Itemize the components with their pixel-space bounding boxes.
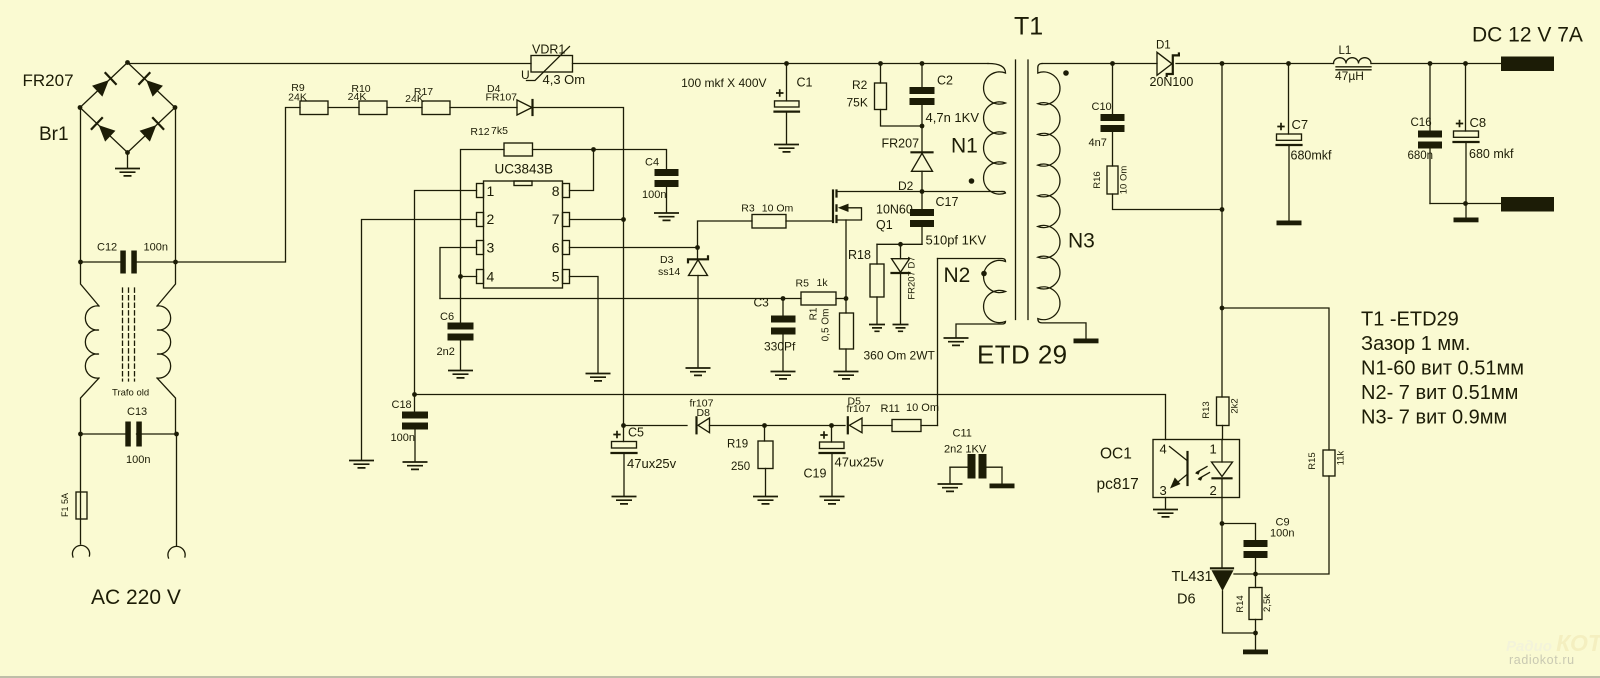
wire: VREF node to C4 [594,150,667,170]
ground: C5 [612,497,637,504]
svg-text:FR207: FR207 [882,137,920,151]
wire R9-R10 [328,107,359,109]
svg-text:3: 3 [1160,483,1167,498]
resistor R9 24K [300,101,328,115]
ground: pin5 [586,374,611,381]
AC terminal left [72,545,89,557]
plus sign C1 [776,89,784,96]
wire: COMP bus to OC1 pin4 [415,395,1166,440]
ground: C19 [820,497,845,504]
wire: pin7 to VCC rail [570,219,624,221]
wire: HV bus from VDR1 to transformer N1 top [573,63,989,65]
bridge diode top-right [139,73,163,97]
IC notch [514,181,532,186]
bridge diode top-left [92,73,116,97]
svg-text:100n: 100n [1270,528,1294,540]
node: rail at R16 [1220,207,1225,212]
svg-text:330Pf: 330Pf [764,340,796,354]
Q1 source routing [837,208,862,220]
resistor R5 1k [801,292,836,305]
transistor Q1 10N60 MOSFET: gate bar [832,191,834,223]
node: pin4/R12/C6 [458,274,463,279]
svg-text:24K: 24K [288,92,307,104]
AC terminal right [168,546,185,558]
node: C12 right [173,260,178,265]
svg-text:U: U [521,68,530,82]
svg-text:C5: C5 [628,426,644,440]
svg-text:510pf 1KV: 510pf 1KV [926,233,987,248]
wire: left leg to fuse and AC terminal [80,434,82,544]
svg-text:8: 8 [552,183,560,199]
svg-text:C10: C10 [1092,101,1112,113]
wire: R15 bottom to REF line [1234,476,1329,574]
node: C7 top [1286,61,1291,66]
node: R5/R1/source [844,296,849,301]
wire: drain line to N1 bottom [837,191,1005,193]
svg-text:R15: R15 [1307,452,1318,469]
svg-text:100n: 100n [642,189,666,201]
node: C10 top [1110,61,1115,66]
svg-text:F1 5A: F1 5A [60,493,70,517]
output terminal - [1501,197,1554,212]
ground: C7 (secondary bar) [1277,221,1302,226]
pin box 6 [563,241,570,255]
ground: R19 [753,497,778,504]
node: pin2/TL431/C9 [1220,521,1225,526]
wire: D4 cathode to VCC rail corner [533,108,624,442]
capacitor C4 100n [655,169,679,176]
capacitor C17 510pf 1KV [921,192,923,210]
resistor R13 2k2 [1217,397,1230,426]
svg-text:AC 220 V: AC 220 V [91,586,181,609]
svg-text:2,5k: 2,5k [1262,594,1273,612]
svg-text:4: 4 [1160,442,1167,457]
ground: C8 (secondary bar) [1454,218,1479,223]
node: pin7/VCC [621,217,626,222]
wire: bridge minus to ground [127,153,129,169]
svg-text:1: 1 [487,183,495,199]
svg-text:R5: R5 [796,278,810,290]
wire: D1 to +12V rail [1176,63,1222,65]
node: C12 left [78,260,83,265]
ground: C6 [448,371,473,378]
svg-text:Br1: Br1 [39,124,69,145]
node: C19/D5 [829,423,834,428]
ground: bridge [115,169,140,176]
svg-text:R11: R11 [881,403,900,415]
svg-text:pc817: pc817 [1097,476,1139,493]
ground: C18 [403,462,428,469]
svg-text:D2: D2 [898,179,914,193]
svg-text:C1: C1 [797,76,813,90]
svg-text:R13: R13 [1201,401,1212,418]
output terminal + (DC 12V) [1501,57,1554,72]
svg-text:2: 2 [487,211,495,227]
fuse F1 5A [76,492,87,519]
ground: R14 (secondary bar) [1243,650,1268,655]
wire: left AC rail bridge to C12 [80,108,82,263]
ground: C4 [654,213,679,220]
capacitor C6 2n2 [448,323,474,330]
diode D1 20N100 [1157,52,1172,75]
node: C16 top [1428,61,1433,66]
resistor R10 24K [359,101,387,115]
svg-text:R1: R1 [809,307,820,320]
capacitor C1 electrolytic [786,64,788,101]
node: C1 top [784,61,789,66]
svg-text:3: 3 [487,240,495,256]
wire: branch to R15 [1222,308,1329,450]
svg-text:N3: N3 [1068,230,1095,253]
svg-text:4n7: 4n7 [1089,137,1107,149]
svg-text:6: 6 [552,240,560,256]
svg-text:C2: C2 [937,74,953,88]
wire: OC1 pin2 down [1221,498,1223,524]
svg-text:C8: C8 [1470,115,1487,130]
wire: +12V rail to output [1222,63,1501,65]
OC1 LED [1221,440,1223,463]
svg-text:R3: R3 [741,203,755,215]
ground: C1 [774,145,799,152]
OC1 phototransistor emitter with arrow [1173,475,1188,487]
svg-text:2: 2 [1210,483,1217,498]
wire: pin5 to ground [570,277,599,374]
svg-text:Зазор 1 мм.: Зазор 1 мм. [1361,333,1470,355]
wire: pin4 to RC node [461,276,477,278]
svg-text:R14: R14 [1235,595,1246,612]
svg-text:R16: R16 [1092,171,1103,188]
svg-text:C13: C13 [127,406,147,418]
svg-text:0,5 Om: 0,5 Om [821,309,832,342]
svg-text:100 mkf X 400V: 100 mkf X 400V [681,76,766,90]
node: feedback branch [1220,306,1225,311]
capacitor C19 47ux25v electrolytic [831,426,833,443]
svg-text:N1: N1 [951,135,978,158]
svg-text:C19: C19 [804,467,827,481]
svg-text:C4: C4 [645,157,659,169]
svg-text:250: 250 [731,461,750,473]
svg-text:24K: 24K [405,93,424,105]
svg-text:ss14: ss14 [658,266,680,278]
wire: node up to R3 [698,221,753,248]
svg-text:5: 5 [552,269,560,285]
wire: OC1 pin3 to ground [1165,498,1167,510]
OC1 phototransistor base bar [1186,452,1188,485]
wire: snubber node row [877,243,922,245]
svg-text:4: 4 [487,269,495,285]
wire: VCC aux row [624,425,938,427]
svg-text:680n: 680n [1408,150,1434,162]
transformer T1: secondary winding N3 [1038,64,1086,339]
svg-text:R19: R19 [727,439,748,451]
pin box 7 [563,213,570,227]
ground: R1 [834,372,859,379]
svg-text:D8: D8 [697,407,711,419]
inductor L1 47uH [1334,58,1372,64]
node: C18/COMP bus [412,392,417,397]
capacitor C9 100n [1244,540,1268,547]
svg-text:radiokot.ru: radiokot.ru [1509,653,1575,667]
shunt regulator D6 TL431 [1221,524,1223,569]
svg-text:C11: C11 [953,428,972,440]
pin box 5 [563,270,570,284]
svg-text:10 Om: 10 Om [1119,166,1130,195]
capacitor C16 680n [1429,64,1431,131]
pin box 4 [477,270,484,284]
svg-text:11k: 11k [1336,450,1347,465]
op-amp/PWM IC U1 UC3843B body [484,181,563,288]
ground: C11 left [938,484,963,491]
wire R10-R17 [387,107,422,109]
svg-text:N1-60 вит 0.51мм: N1-60 вит 0.51мм [1361,358,1524,380]
plus sign C8 [1456,120,1463,127]
svg-text:fr107: fr107 [847,403,871,415]
resistor R16 10 Om [1107,166,1118,194]
node: bridge corners junction dots [125,60,130,65]
svg-text:C3: C3 [754,296,770,310]
capacitor C2 4,7n 1KV [921,64,923,88]
node: drain/D2/C17 [920,189,925,194]
wire: pin1 to COMP bus [415,191,477,395]
choke core dashed lines [123,288,135,381]
svg-text:Q1: Q1 [876,218,893,232]
wire: lower output row [1430,203,1501,205]
pin box 2 [477,213,484,227]
svg-text:100n: 100n [144,242,168,254]
svg-text:L1: L1 [1339,45,1352,57]
wire: R12 right to VREF node [533,149,594,151]
svg-text:T1: T1 [1014,13,1043,41]
svg-text:47ux25v: 47ux25v [627,456,677,471]
svg-text:360 Om 2WT: 360 Om 2WT [864,349,936,363]
resistor R15 11k [1323,450,1335,476]
diode D8 fr107 [695,417,697,433]
capacitor C5 47ux25v electrolytic [612,442,637,449]
svg-text:C6: C6 [440,311,454,323]
ground: OC1 pin3 [1153,510,1178,517]
polarity dot N2 [981,271,987,277]
diode D4 FR107 [517,100,532,115]
capacitor C18 100n [414,395,416,412]
transformer T1: primary winding N1 [984,64,1006,195]
bridge rectifier Br1 FR207 : diamond outline [80,63,175,153]
common-mode choke Trafo old : left winding [81,262,100,434]
node: pin6/R3/D3 [695,245,700,250]
resistor R1 0.5 Om [845,299,847,314]
wire: pin8 to VREF node [570,150,594,191]
wire: right AC rail bridge to C12 [175,108,177,263]
node: R18/D7/C17 [898,242,903,247]
node: R2 top [878,61,883,66]
resistor R11 10 Om [892,420,921,432]
transformer T1: core lines [1016,60,1029,320]
node: C13 left [78,432,83,437]
varistor VDR1 [531,56,573,73]
capacitor C11 2n2 1KV (Y-cap) [950,466,1002,468]
wire: source down to R1 node [845,220,847,299]
OC1 phototransistor collector [1170,447,1188,461]
ground: N2 [944,338,969,345]
resistor R2 75K [880,64,882,84]
wire R17-D4 [450,107,517,109]
svg-text:2n2: 2n2 [437,346,455,358]
svg-text:24K: 24K [348,91,367,103]
wire: R2 bottom to C2 bottom [881,110,923,127]
capacitor C7 680mkf electrolytic [1288,64,1290,135]
node: D8/R19 [762,423,767,428]
node: REF/C9/R14 [1253,572,1258,577]
svg-text:7k5: 7k5 [491,125,508,137]
resistor R19 250 [764,426,766,442]
transformer T1: aux winding N2 [938,259,1006,338]
svg-text:4,3 Om: 4,3 Om [543,72,586,87]
polarity dot N3 [1063,70,1069,76]
ground: N3 return (secondary bar) [1074,339,1099,344]
svg-text:C12: C12 [97,242,117,254]
svg-text:FR107: FR107 [486,92,518,104]
resistor R17 24K [422,101,450,115]
svg-text:D3: D3 [660,254,674,266]
svg-text:75K: 75K [847,96,868,110]
svg-text:7: 7 [552,211,560,227]
svg-text:C18: C18 [392,399,412,411]
svg-text:N2: N2 [944,264,971,287]
bridge diode bottom-left [92,118,116,142]
ground: R18 [869,325,885,332]
wire: R16 bottom to rail [1113,194,1223,210]
resistor R18 360 Om 2WT [876,244,878,264]
svg-text:C17: C17 [936,195,959,209]
wire: node to C9 [1222,524,1256,541]
node: C3 [781,296,786,301]
svg-text:D1: D1 [1156,40,1171,52]
svg-text:VDR1: VDR1 [532,43,565,57]
ground: C3 [771,372,796,379]
svg-text:100n: 100n [391,432,415,444]
wire: pin2 to ground [362,220,477,460]
schottky diode D3 ss14 [697,248,699,260]
resistor R12 7k5 [504,143,533,156]
svg-text:47µH: 47µH [1335,69,1364,83]
ground: C11 right (secondary bar) [990,484,1015,489]
wire: pin3 to current-sense line [440,248,477,299]
node: C13 right [174,432,179,437]
svg-text:C7: C7 [1292,117,1309,132]
plus sign C7 [1277,123,1284,130]
wire: main HV bus from bridge + to VDR1 [128,63,532,65]
wire: right leg to AC terminal [176,434,178,546]
wire: pin6 to gate drive node [570,247,698,249]
wire: C12 row and feed to startup resistors [81,108,301,263]
common-mode choke Trafo old : right winding [157,262,176,434]
svg-text:OC1: OC1 [1100,446,1132,463]
node: D1 output [1220,61,1225,66]
svg-text:680mkf: 680mkf [1291,149,1333,163]
bottom edge strip [0,676,1600,678]
svg-text:DC 12 V 7A: DC 12 V 7A [1472,24,1583,47]
plus sign C19 [820,431,827,438]
svg-text:47ux25v: 47ux25v [835,455,885,470]
svg-text:FR207: FR207 [23,71,74,90]
wire: current-sense line pin3 to R5 [440,298,801,300]
svg-text:R2: R2 [852,78,868,92]
node: R2/C2 bottom [920,124,925,129]
wire: N2 top lead down to aux rectifier [937,259,939,426]
polarity dot N1 [969,178,975,184]
ground: D7 [893,325,909,332]
ground: D3 [686,368,711,375]
svg-text:10 Om: 10 Om [906,402,939,414]
diode D2 FR207 (snubber clamp) [921,126,923,152]
svg-text:D6: D6 [1177,592,1196,608]
capacitor C3 330Pf [782,299,784,316]
svg-text:2k2: 2k2 [1230,398,1241,413]
svg-text:R12: R12 [470,126,489,138]
pin box 3 [477,241,484,255]
node: C8 bottom [1463,201,1468,206]
wire: C13 row [81,433,177,435]
wire: R3 to gate [786,220,833,222]
opto-coupler OC1 pc817 body [1153,440,1240,498]
svg-text:10N60: 10N60 [876,203,913,217]
wire: N3 top to D1 [1042,63,1157,65]
node: VREF / pin8 / C4 [591,147,596,152]
OC1 light arrows [1197,467,1210,479]
svg-text:TL431: TL431 [1172,569,1213,585]
diode D5 fr107 [847,417,849,433]
bridge diode bottom-right [140,118,164,142]
svg-text:ETD 29: ETD 29 [977,340,1068,370]
svg-text:1k: 1k [817,277,829,289]
svg-text:4,7n 1KV: 4,7n 1KV [926,110,980,125]
Q1 channel dashes [835,191,837,223]
svg-text:680 mkf: 680 mkf [1469,147,1514,161]
svg-text:10 Om: 10 Om [762,203,794,215]
plus sign C5 [613,431,620,438]
svg-text:2n2 1KV: 2n2 1KV [944,444,987,456]
svg-text:C16: C16 [1411,117,1432,129]
pin box 8 [563,184,570,198]
resistor R3 10 Om [752,215,786,229]
svg-text:T1 -ETD29: T1 -ETD29 [1361,309,1459,331]
resistor R14 2,5k [1255,574,1257,588]
node: R14 bottom [1253,631,1258,636]
pin box 1 [477,184,484,198]
capacitor C8 680 mkf electrolytic [1465,64,1467,132]
node: C8 top [1463,61,1468,66]
svg-text:100n: 100n [126,454,150,466]
capacitor C10 4n7 (snubber) [1112,64,1114,115]
svg-text:R18: R18 [848,248,871,262]
svg-text:1: 1 [1210,442,1217,457]
svg-text:N3- 7 вит 0.9мм: N3- 7 вит 0.9мм [1361,407,1507,429]
wire: R12 left to pin4 node and down to C6 [461,150,505,323]
svg-text:FR207 D7: FR207 D7 [907,256,918,299]
svg-text:20N100: 20N100 [1150,75,1194,89]
wire: rail down to feedback [1221,64,1223,398]
capacitor C13 100n [125,422,131,447]
node: C2 top [920,61,925,66]
svg-text:Trafo old: Trafo old [112,388,149,399]
wire: R13 bottom to OC1 pin1 [1222,426,1224,440]
diode D7 FR207 [900,244,902,258]
node: C5/VCC [621,423,626,428]
wire: R5 to source node [836,298,846,300]
capacitor C12 100n [120,251,126,274]
Q1 source arrow [838,204,849,212]
ground: pin2 [349,461,374,468]
svg-text:UC3843B: UC3843B [495,162,554,177]
